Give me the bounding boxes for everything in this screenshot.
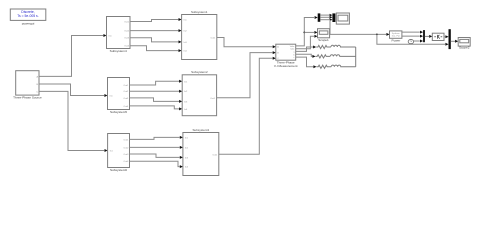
series RL branch phase b — [316, 55, 356, 58]
svg-text:Out4: Out4 — [124, 45, 130, 48]
wire S2 Out3 to B2 In3 — [130, 98, 180, 102]
svg-text:Out2: Out2 — [124, 146, 130, 149]
three-phase source block — [16, 71, 39, 95]
wire demux out3 to mux in3 — [320, 19, 329, 21]
series RL branch phase c — [317, 65, 356, 68]
svg-text:Out1: Out1 — [123, 84, 129, 87]
wire V-I a to branch RL1 — [296, 47, 313, 51]
wire power Q to mux3 in2 — [402, 35, 420, 37]
wire S3 Out1 to B3 In1 — [130, 137, 180, 139]
mux bar — [332, 13, 335, 22]
wire tap from demux out3 down to power feed — [329, 20, 331, 35]
wire bypass down to mux4 — [377, 34, 445, 44]
wire S2 Out4 to B2 In4 — [130, 106, 180, 109]
wire source C to Subsystem6 In1 — [39, 91, 104, 150]
svg-text:Scope1: Scope1 — [318, 38, 329, 42]
wire S2 Out1 to B2 In1 — [130, 81, 180, 85]
scope1 block — [318, 29, 330, 38]
svg-text:Subsystem1: Subsystem1 — [191, 10, 208, 14]
wire demux out1 to mux in1 — [320, 14, 329, 16]
wire V-I c to branch RL3 — [296, 57, 314, 67]
subsystem S1 block — [107, 17, 131, 49]
svg-text:Three-Phase Source: Three-Phase Source — [13, 95, 42, 99]
svg-text:Out1: Out1 — [210, 97, 216, 100]
svg-text:Power: Power — [392, 38, 401, 42]
wire feed to Power block — [330, 33, 386, 35]
svg-text:Out3: Out3 — [124, 37, 130, 40]
svg-text:powergui: powergui — [22, 21, 35, 25]
scope2 block — [458, 38, 470, 47]
svg-text:Subsystem5: Subsystem5 — [110, 110, 127, 114]
three-phase V-I measurement block — [276, 44, 296, 60]
wire V-I b to branch RL2 — [296, 54, 313, 56]
wire B3 Out1 to V-I measurement C — [219, 58, 273, 154]
svg-text:Out2: Out2 — [124, 30, 130, 33]
subsystem B1 block — [182, 15, 217, 60]
power measurement block — [390, 31, 402, 38]
svg-text:3-phase: 3-phase — [392, 33, 401, 35]
mux3 bar — [423, 30, 425, 42]
wire neutral joining branches — [355, 47, 357, 67]
wire B1 Out1 to V-I measurement A — [217, 38, 273, 47]
svg-text:Out2: Out2 — [123, 90, 129, 93]
subsystem S2 block — [108, 78, 130, 110]
clock block — [408, 40, 413, 44]
svg-text:Ts = 5e-005 s.: Ts = 5e-005 s. — [17, 14, 38, 18]
subsystem B3 block — [183, 133, 219, 176]
wire source A to Subsystem4 In1 — [39, 36, 103, 77]
wire demux out2 to mux in2 — [320, 16, 329, 18]
wire S1 Out4 to B1 In4 — [130, 46, 178, 51]
svg-text:Subsystem4: Subsystem4 — [110, 49, 127, 53]
svg-text:Subsystem6: Subsystem6 — [110, 168, 127, 172]
svg-text:Inst. PQ: Inst. PQ — [392, 35, 400, 38]
mux4 bar — [449, 29, 451, 49]
demux bar — [318, 13, 321, 21]
junction Vabc to Scope1 — [303, 32, 305, 34]
wire S1 Out1 to B1 In1 — [130, 20, 178, 22]
svg-text:Out4: Out4 — [123, 105, 129, 108]
wire gain to mux4 — [444, 36, 445, 38]
wire Vabc branch to Scope1 in1 — [304, 31, 314, 33]
junction power feed bypass — [376, 34, 378, 36]
wire S3 Out4 to B3 In4 — [130, 161, 180, 166]
wire Vabc signal to demux — [296, 18, 314, 46]
subsystem S3 block — [108, 134, 130, 168]
powergui block — [10, 9, 46, 20]
svg-text:Scope2: Scope2 — [459, 46, 470, 50]
wire S1 Out3 to B1 In3 — [130, 38, 178, 42]
svg-text:Subsystem3: Subsystem3 — [193, 128, 210, 132]
series RL branch phase a — [316, 45, 356, 48]
wire S1 Out2 to B1 In2 — [130, 30, 178, 32]
wire mux4 to scope2 — [451, 40, 455, 42]
svg-text:Out1: Out1 — [124, 20, 130, 23]
gain block -K- — [432, 33, 444, 40]
svg-text:V-I Measurement: V-I Measurement — [274, 64, 298, 68]
svg-text:Out1: Out1 — [212, 153, 218, 156]
svg-text:Out3: Out3 — [124, 153, 130, 156]
wire power P to mux3 in1 — [402, 31, 420, 33]
svg-text:Out3: Out3 — [123, 97, 129, 100]
wire S3 Out2 to B3 In2 — [130, 146, 180, 148]
scope block (top) — [336, 13, 349, 24]
wire mux3 to gain — [425, 35, 429, 37]
wire clock to mux3 in3 — [414, 40, 420, 42]
wire source B to Subsystem5 In1 — [39, 84, 104, 96]
wire B2 Out1 to V-I measurement B — [217, 53, 273, 98]
svg-text:Out4: Out4 — [124, 160, 130, 163]
wire Iabc signal to Scope1 in2 — [296, 36, 314, 48]
svg-text:Out1: Out1 — [124, 138, 130, 141]
wire S3 Out3 to B3 In3 — [130, 154, 180, 157]
svg-text:Out1: Out1 — [210, 37, 216, 40]
wire S2 Out2 to B2 In2 — [130, 90, 180, 92]
subsystem B2 block — [182, 75, 216, 116]
svg-text:Subsystem2: Subsystem2 — [191, 70, 208, 74]
